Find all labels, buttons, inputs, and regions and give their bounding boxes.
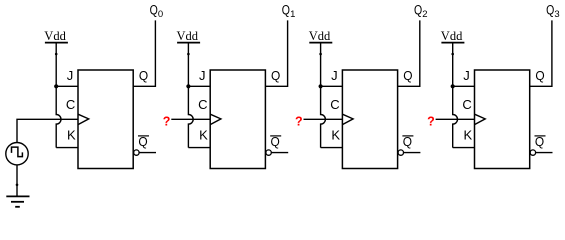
svg-text:?: ?	[163, 114, 171, 128]
svg-text:K: K	[199, 128, 208, 143]
svg-text:2: 2	[422, 9, 427, 20]
svg-text:Q: Q	[546, 3, 554, 18]
svg-text:3: 3	[554, 9, 559, 20]
svg-text:J: J	[463, 68, 470, 83]
svg-text:Vdd: Vdd	[44, 29, 66, 43]
svg-text:1: 1	[290, 9, 295, 20]
svg-text:Q: Q	[150, 3, 158, 18]
svg-text:Vdd: Vdd	[441, 29, 463, 43]
svg-text:Q: Q	[139, 68, 148, 83]
svg-text:0: 0	[158, 9, 163, 20]
svg-text:J: J	[67, 68, 74, 83]
svg-text:Vdd: Vdd	[309, 29, 331, 43]
svg-text:?: ?	[295, 114, 303, 128]
svg-text:Q: Q	[403, 68, 412, 83]
svg-text:J: J	[331, 68, 338, 83]
svg-text:Q: Q	[282, 3, 290, 18]
svg-text:K: K	[331, 128, 340, 143]
svg-text:?: ?	[427, 114, 435, 128]
svg-text:Q: Q	[271, 68, 280, 83]
svg-text:K: K	[67, 128, 76, 143]
svg-text:Q: Q	[414, 3, 422, 18]
svg-text:K: K	[463, 128, 472, 143]
svg-text:C: C	[330, 97, 339, 112]
svg-text:Q: Q	[535, 68, 544, 83]
svg-text:C: C	[66, 97, 75, 112]
svg-text:C: C	[462, 97, 471, 112]
svg-text:J: J	[199, 68, 206, 83]
svg-text:Vdd: Vdd	[177, 29, 199, 43]
svg-text:C: C	[198, 97, 207, 112]
